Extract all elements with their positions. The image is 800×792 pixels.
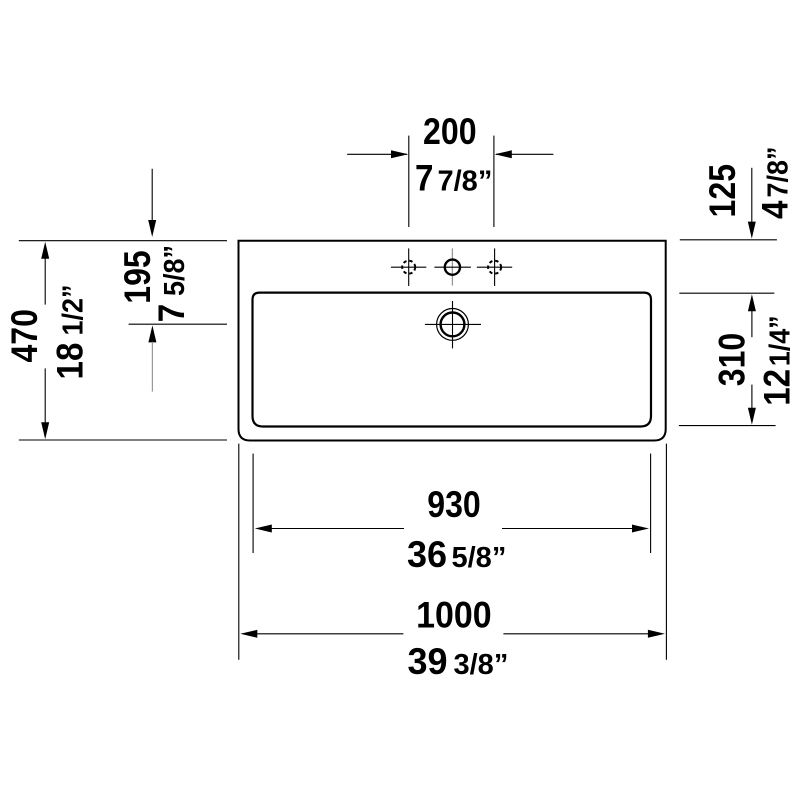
dim 470: top extension line bbox=[19, 240, 227, 242]
dim 930: left arrowhead bbox=[255, 525, 272, 533]
svg-text:5/8”: 5/8” bbox=[158, 245, 190, 296]
dim 125: extension line (top edge level) bbox=[680, 239, 777, 241]
washbasin outer outline bbox=[239, 241, 666, 441]
svg-text:310: 310 bbox=[711, 333, 753, 386]
dim 470: dimension line lower segment bbox=[44, 368, 46, 424]
svg-text:7/8”: 7/8” bbox=[762, 147, 794, 198]
svg-text:7/8”: 7/8” bbox=[438, 166, 493, 198]
faucet hole centre: gray centreline bbox=[451, 248, 453, 285]
drain crosshair bbox=[452, 301, 454, 348]
faucet hole left: crosshair bbox=[408, 248, 410, 286]
dim 125: dimension line bbox=[751, 168, 753, 224]
dim 1000: right arrowhead bbox=[648, 630, 665, 638]
svg-text:200: 200 bbox=[423, 111, 476, 153]
drain inner circle bbox=[441, 313, 465, 337]
dim 310: dimension line upper segment bbox=[751, 308, 753, 337]
svg-text:1000: 1000 bbox=[416, 594, 491, 636]
dim 310: up arrowhead bbox=[748, 294, 756, 311]
svg-text:125: 125 bbox=[701, 164, 743, 217]
dim 200: left dimension line bbox=[347, 153, 407, 155]
inner basin outline bbox=[253, 293, 652, 427]
dim 470: bottom extension line bbox=[19, 439, 227, 441]
svg-text:3/8”: 3/8” bbox=[454, 649, 509, 681]
svg-text:930: 930 bbox=[427, 484, 480, 526]
dim 310: down arrowhead bbox=[748, 408, 756, 425]
dim 195: lower up arrowhead bbox=[148, 325, 156, 342]
dim 1000: dimension line left segment bbox=[253, 633, 403, 635]
svg-text:39: 39 bbox=[407, 641, 447, 683]
dim 930: right arrowhead bbox=[632, 525, 649, 533]
svg-text:1/2”: 1/2” bbox=[57, 285, 89, 336]
dim 200: right arrowhead bbox=[495, 150, 512, 158]
dim 1000: left extension line bbox=[238, 444, 240, 660]
svg-text:12: 12 bbox=[756, 369, 798, 406]
dim 1000: right extension line bbox=[665, 444, 667, 660]
dim 195: middle extension line (drain level) bbox=[129, 323, 227, 325]
svg-text:5/8”: 5/8” bbox=[452, 542, 507, 574]
svg-text:7: 7 bbox=[150, 304, 192, 322]
dim 930: dimension line right segment bbox=[502, 528, 635, 530]
faucet hole right: dashed circle bbox=[488, 261, 501, 274]
dim 200: left extension line bbox=[408, 136, 410, 227]
faucet hole right: crosshair bbox=[494, 248, 496, 286]
svg-text:1/4”: 1/4” bbox=[764, 315, 796, 366]
dim 470: up arrowhead bbox=[41, 242, 49, 259]
dim 930: right extension line bbox=[650, 454, 652, 553]
faucet hole centre: solid circle bbox=[445, 260, 460, 275]
svg-text:7: 7 bbox=[415, 157, 433, 199]
dim 310: top extension line (basin top level) bbox=[679, 292, 774, 294]
dim 310: bottom extension line (basin bottom level) bbox=[679, 425, 776, 427]
dim 930: dimension line left segment bbox=[268, 528, 404, 530]
faucet hole left: dashed circle bbox=[402, 261, 415, 274]
dim 200: left arrowhead bbox=[391, 150, 408, 158]
faucet hole centre: crosshair bbox=[434, 266, 471, 268]
svg-text:470: 470 bbox=[3, 309, 45, 362]
dim 200: right extension line bbox=[493, 136, 495, 227]
dim 195: upper down arrowhead bbox=[148, 220, 156, 237]
svg-text:4: 4 bbox=[754, 200, 796, 219]
dim 470: dimension line upper segment bbox=[44, 256, 46, 305]
svg-text:36: 36 bbox=[407, 533, 447, 575]
dim 125: down arrowhead bbox=[748, 222, 756, 239]
dim 200: right dimension line bbox=[496, 153, 553, 155]
svg-text:195: 195 bbox=[117, 250, 159, 303]
dim 195: lower arrow gray tail bbox=[151, 342, 153, 392]
svg-text:18: 18 bbox=[49, 343, 91, 380]
dim 1000: left arrowhead bbox=[240, 630, 257, 638]
dim 930: left extension line bbox=[252, 454, 254, 553]
dim 470: down arrowhead bbox=[41, 422, 49, 439]
dim 310: dimension line lower segment bbox=[751, 385, 753, 411]
dim 195: upper arrow line bbox=[151, 169, 153, 224]
dim 1000: dimension line right segment bbox=[503, 633, 651, 635]
drain outer circle bbox=[437, 309, 469, 341]
